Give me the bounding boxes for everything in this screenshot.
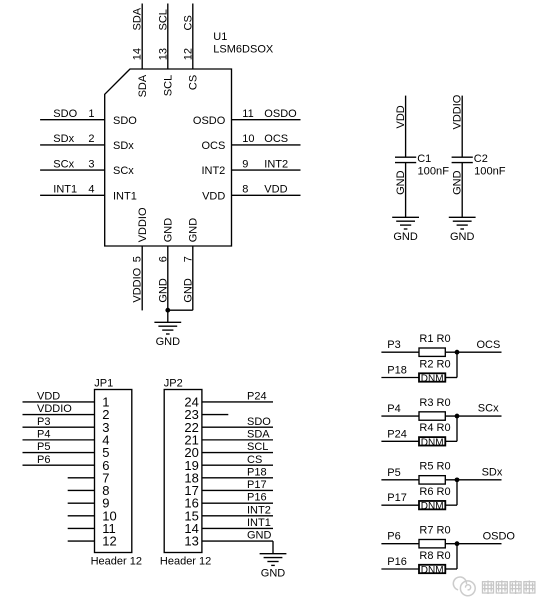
svg-text:4: 4 (88, 184, 94, 196)
svg-text:GND: GND (395, 170, 407, 195)
svg-text:DNM: DNM (421, 374, 444, 385)
svg-text:P5: P5 (37, 441, 50, 453)
svg-text:11: 11 (242, 108, 253, 120)
svg-text:OSDO: OSDO (264, 108, 297, 120)
svg-text:SDO: SDO (113, 115, 137, 127)
svg-text:DNM: DNM (421, 565, 444, 576)
svg-text:12: 12 (102, 534, 116, 549)
svg-text:P4: P4 (37, 428, 50, 440)
svg-text:INT1: INT1 (113, 190, 137, 202)
svg-text:P6: P6 (387, 531, 400, 543)
svg-text:C1: C1 (417, 153, 431, 165)
svg-text:OCS: OCS (201, 140, 225, 152)
svg-text:C2: C2 (474, 153, 488, 165)
svg-text:OSDO: OSDO (483, 530, 516, 542)
svg-text:P5: P5 (387, 467, 400, 479)
svg-text:P4: P4 (387, 403, 400, 415)
svg-text:100nF: 100nF (474, 166, 506, 178)
svg-text:VDDIO: VDDIO (137, 207, 149, 242)
svg-text:VDD: VDD (202, 190, 225, 202)
svg-text:CS: CS (188, 75, 200, 90)
svg-text:R6 R0: R6 R0 (419, 486, 450, 498)
svg-text:Header 12: Header 12 (91, 556, 142, 568)
svg-text:VDDIO: VDDIO (451, 94, 463, 129)
svg-text:GND: GND (451, 170, 463, 195)
svg-text:8: 8 (242, 184, 248, 196)
svg-text:10: 10 (242, 133, 254, 145)
svg-text:100nF: 100nF (418, 166, 450, 178)
svg-text:P17: P17 (247, 479, 267, 491)
svg-text:SCL: SCL (247, 441, 268, 453)
svg-text:LSM6DSOX: LSM6DSOX (213, 43, 274, 55)
svg-text:GND: GND (163, 218, 175, 243)
svg-text:R7 R0: R7 R0 (419, 524, 450, 536)
svg-text:GND: GND (393, 231, 418, 243)
svg-text:R2 R0: R2 R0 (419, 358, 450, 370)
svg-text:INT2: INT2 (264, 158, 288, 170)
svg-text:SDA: SDA (247, 428, 270, 440)
svg-text:SDx: SDx (53, 133, 74, 145)
svg-text:R1 R0: R1 R0 (419, 333, 450, 345)
svg-text:SDA: SDA (132, 7, 144, 30)
svg-text:INT2: INT2 (247, 504, 271, 516)
svg-text:SDO: SDO (247, 416, 271, 428)
svg-text:SDA: SDA (137, 74, 149, 97)
svg-text:VDD: VDD (395, 105, 407, 128)
svg-text:SDO: SDO (53, 108, 77, 120)
svg-text:SCL: SCL (157, 9, 169, 30)
svg-text:VDDIO: VDDIO (37, 403, 72, 415)
svg-text:OCS: OCS (264, 133, 288, 145)
svg-text:P3: P3 (387, 339, 400, 351)
svg-text:CS: CS (247, 454, 262, 466)
svg-text:JP2: JP2 (164, 377, 183, 389)
svg-text:14: 14 (132, 48, 144, 60)
svg-text:OSDO: OSDO (193, 115, 226, 127)
svg-text:GND: GND (156, 336, 181, 348)
svg-text:R5 R0: R5 R0 (419, 461, 450, 473)
svg-text:SCx: SCx (113, 165, 134, 177)
svg-text:13: 13 (184, 534, 198, 549)
svg-text:OCS: OCS (477, 339, 501, 351)
svg-text:INT1: INT1 (247, 517, 271, 529)
svg-text:SCx: SCx (478, 403, 499, 415)
svg-text:1: 1 (88, 108, 94, 120)
svg-text:DNM: DNM (421, 437, 444, 448)
svg-text:P24: P24 (387, 428, 407, 440)
svg-text:R4 R0: R4 R0 (419, 422, 450, 434)
svg-text:GND: GND (450, 231, 475, 243)
svg-text:3: 3 (88, 158, 94, 170)
svg-text:9: 9 (242, 158, 248, 170)
svg-text:VDD: VDD (264, 184, 287, 196)
svg-text:P6: P6 (37, 454, 50, 466)
svg-text:JP1: JP1 (94, 377, 113, 389)
svg-text:SCL: SCL (163, 75, 175, 96)
svg-text:U1: U1 (213, 31, 227, 43)
svg-text:P18: P18 (247, 466, 267, 478)
svg-text:INT1: INT1 (53, 184, 77, 196)
svg-text:CS: CS (182, 15, 194, 30)
svg-text:Header 12: Header 12 (160, 556, 211, 568)
svg-text:P24: P24 (247, 391, 267, 403)
svg-text:13: 13 (157, 48, 169, 60)
svg-text:SCx: SCx (53, 158, 74, 170)
svg-text:R3 R0: R3 R0 (419, 397, 450, 409)
svg-text:R8 R0: R8 R0 (419, 550, 450, 562)
svg-text:12: 12 (182, 48, 194, 60)
svg-text:INT2: INT2 (201, 165, 225, 177)
svg-text:2: 2 (88, 133, 94, 145)
svg-text:GND: GND (261, 567, 286, 579)
svg-text:GND: GND (247, 530, 272, 542)
svg-text:SDx: SDx (482, 467, 503, 479)
svg-text:P16: P16 (247, 492, 267, 504)
svg-text:P3: P3 (37, 416, 50, 428)
svg-text:P17: P17 (387, 492, 407, 504)
svg-text:DNM: DNM (421, 501, 444, 512)
svg-text:SDx: SDx (113, 140, 134, 152)
svg-text:P16: P16 (387, 556, 407, 568)
svg-text:VDD: VDD (37, 391, 60, 403)
svg-text:GND: GND (188, 218, 200, 243)
svg-text:P18: P18 (387, 365, 407, 377)
